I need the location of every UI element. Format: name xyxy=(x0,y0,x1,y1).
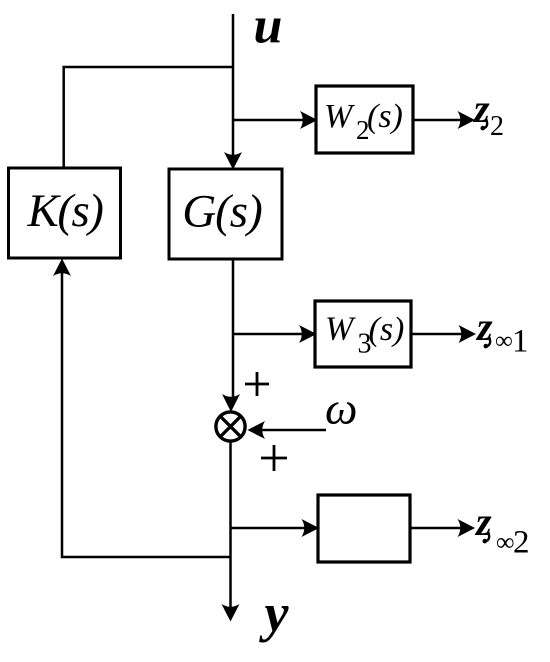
svg-text:u: u xyxy=(254,0,283,55)
wire: arrowhead into W3(s) xyxy=(299,325,317,343)
wire: arrowhead at y output xyxy=(222,604,240,622)
svg-text:(s): (s) xyxy=(367,98,403,135)
wire: arrowhead at z2 xyxy=(458,111,476,129)
plus sign lower at summing junction xyxy=(261,445,287,471)
wire: arrowhead into summing junction top xyxy=(222,394,240,412)
summing junction circle with X xyxy=(216,412,245,441)
wire: branch to empty weighting block xyxy=(231,527,311,530)
wire: branch to W2(s) xyxy=(233,119,308,122)
plant G(s) xyxy=(169,169,282,259)
svg-text:∞: ∞ xyxy=(495,328,513,355)
node z-inf-1 label xyxy=(475,304,529,360)
wire: feedback from y line left xyxy=(62,271,231,557)
svg-text:2: 2 xyxy=(513,525,530,561)
wire: summing junction output down to y xyxy=(229,442,232,611)
node z2 label xyxy=(472,86,504,142)
block W2(s) xyxy=(316,86,413,153)
empty weighting block xyxy=(318,495,410,562)
svg-text:2: 2 xyxy=(490,111,504,142)
wire: arrowhead at z-inf-1 xyxy=(459,325,477,343)
wire: branch from u line left to K(s) xyxy=(64,67,233,168)
wire: empty block output to z-inf-2 xyxy=(410,527,465,530)
block W3(s) xyxy=(315,301,411,367)
wire: omega input line xyxy=(259,429,326,432)
svg-text:W: W xyxy=(324,98,355,135)
wire: arrowhead at z-inf-2 xyxy=(458,519,476,537)
plus sign upper at summing junction xyxy=(245,372,269,396)
svg-text:ω: ω xyxy=(325,383,357,434)
wire: arrowhead into G(s) top xyxy=(224,152,242,170)
wire: arrowhead into W2(s) xyxy=(300,111,318,129)
wire: arrowhead of feedback into K(s) bottom xyxy=(53,259,71,277)
wire: branch to W3(s) xyxy=(233,333,307,336)
wire: arrowhead into empty block xyxy=(302,519,320,537)
wire: G(s) output down to summing junction xyxy=(232,259,235,401)
svg-text:K(s): K(s) xyxy=(27,185,104,237)
controller K(s) xyxy=(9,168,121,258)
svg-text:G(s): G(s) xyxy=(182,186,262,238)
svg-text:(s): (s) xyxy=(369,311,405,348)
node z-inf-2 label xyxy=(474,499,530,561)
wire: main input u vertical line xyxy=(232,14,235,158)
svg-text:∞: ∞ xyxy=(496,528,515,557)
wire: arrowhead of omega into junction xyxy=(248,421,266,439)
svg-text:W: W xyxy=(325,311,356,348)
wire: W2 output to z2 xyxy=(413,119,465,122)
svg-text:1: 1 xyxy=(512,324,529,360)
wire: W3 output to z-inf-1 xyxy=(411,333,466,336)
svg-text:y: y xyxy=(259,583,290,643)
